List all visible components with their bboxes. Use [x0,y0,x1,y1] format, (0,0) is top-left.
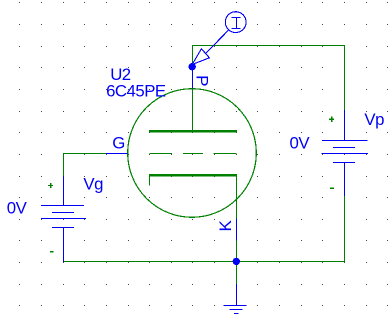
wire: bottom right vertical from Vp bottom pin down to bottom bus [344,196,346,262]
pin P lead (blue) from node P to envelope top [192,67,194,89]
pin K lead (blue) from cathode drop to wire [236,219,238,241]
svg-text:K: K [216,220,235,232]
svg-text:0V: 0V [7,199,28,218]
wire: bottom horizontal bus from Vg bottom pin through node K to the right [63,261,345,263]
current probe I: circle [225,12,246,33]
triode U2 cathode right drop lead [236,175,238,219]
current probe I: letter I-beam [232,17,241,29]
node P junction dot [189,63,196,70]
pin G lead (blue) from wire to envelope left [106,153,128,155]
battery Vg plus polarity mark [48,183,53,188]
svg-text:Vg: Vg [83,175,103,194]
triode U2 control grid dashed line [149,153,236,155]
wire: ground stub from node K down to ground symbol [236,261,238,284]
battery Vp minus polarity mark [330,187,334,189]
svg-text:G: G [112,134,125,153]
wire: left vertical from corner down to Vg battery top pin [63,153,65,176]
battery Vp plus polarity mark [329,117,334,122]
battery Vp bottom lead [344,163,346,197]
battery Vp plates [322,141,368,163]
battery Vg bottom lead [63,228,65,263]
wire: right vertical from top corner down to Vp battery top pin [344,45,346,110]
node K junction dot [233,258,240,265]
battery Vg plates [41,206,86,228]
triode U2 envelope circle [128,89,257,218]
wire: short segment from pin K end down to node K [236,241,238,262]
current probe I: arrowhead at node P [192,49,209,65]
wire: vertical stub from top corner down to node P [192,45,194,67]
triode U2 cathode left hook [149,177,151,186]
triode U2 plate (anode) bar [149,130,237,133]
svg-text:0V: 0V [290,134,311,153]
wire: left horizontal from corner to grid pin G [63,153,106,155]
svg-text:P: P [193,75,212,86]
battery Vp top lead [344,110,346,141]
svg-text:6C45PE: 6C45PE [106,82,166,101]
ground symbol stem (blue) [236,284,238,306]
battery Vg minus polarity mark [50,251,54,253]
wire: top horizontal from node P to top-right corner [192,45,345,47]
triode U2 plate (anode) lead [192,89,194,133]
battery Vg top lead [63,176,65,206]
triode U2 cathode bar [149,174,237,177]
ground symbol bars [223,306,246,314]
current probe I: pointer shaft [206,30,229,53]
svg-text:Vp: Vp [364,110,384,129]
